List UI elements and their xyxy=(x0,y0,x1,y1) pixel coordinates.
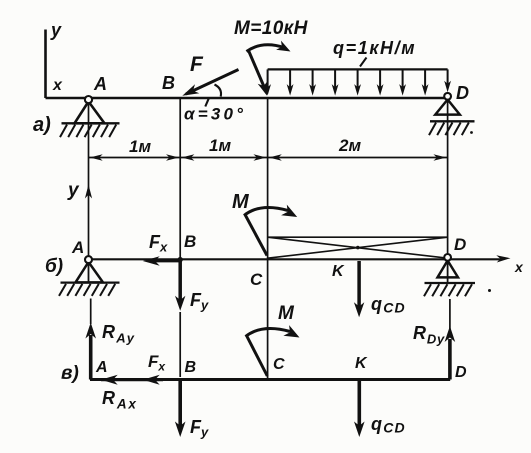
load band C-D with cross (b) xyxy=(268,236,448,238)
svg-text:D: D xyxy=(456,83,469,103)
svg-text:F: F xyxy=(190,53,204,76)
axis y (diagram b) with arrowhead xyxy=(88,164,90,259)
svg-text:в): в) xyxy=(61,363,79,384)
node B dot and label (b) xyxy=(178,257,183,262)
svg-text:1м: 1м xyxy=(209,136,231,155)
ground under A (a) xyxy=(62,122,120,124)
svg-text:A: A xyxy=(71,238,84,257)
ground under D (b) xyxy=(425,282,476,284)
force Fy at B (v) xyxy=(178,381,182,427)
svg-text:2м: 2м xyxy=(338,136,361,155)
wire: vertical construction line at B (a to b) xyxy=(179,98,181,259)
moment arc arrow at C (a) xyxy=(247,45,285,52)
moment arc arrow (v) xyxy=(246,328,291,336)
svg-text:y: y xyxy=(67,180,80,201)
axis y (diagram a) xyxy=(44,30,47,99)
force qCD at K (v) xyxy=(357,381,361,427)
reaction RDy at D (v) xyxy=(449,299,451,330)
svg-text:C: C xyxy=(250,270,263,289)
dimension line B-C: 1m xyxy=(180,157,267,159)
svg-text:1м: 1м xyxy=(129,137,151,156)
svg-text:K: K xyxy=(332,263,345,280)
angle alpha arc at B (a) xyxy=(215,85,222,97)
svg-text:C: C xyxy=(273,356,285,373)
moment stem down to C with arrowhead (a) xyxy=(248,50,265,89)
support A pin triangle (a) xyxy=(75,102,105,124)
beam b (axis x) xyxy=(89,258,504,260)
svg-text:B: B xyxy=(184,232,196,251)
svg-text:a): a) xyxy=(33,114,51,136)
moment stem to C (b) xyxy=(245,215,267,256)
svg-text:B: B xyxy=(162,73,175,93)
svg-text:D: D xyxy=(454,235,466,254)
support D roller (a) xyxy=(435,100,460,115)
distributed load arrows (a) xyxy=(267,69,269,89)
force Fx at B (b) xyxy=(152,260,180,263)
svg-text:y: y xyxy=(50,20,62,40)
reaction RAx along beam at A (v) xyxy=(101,378,163,381)
svg-text:D: D xyxy=(455,364,467,381)
svg-text:M=10кН: M=10кН xyxy=(234,18,309,39)
svg-text:x: x xyxy=(52,77,63,94)
beam v (A to D), bold xyxy=(90,378,450,381)
support D roller (b) xyxy=(438,261,459,278)
svg-text:B: B xyxy=(185,359,197,376)
dimension line C-D: 2m xyxy=(268,157,448,159)
svg-text:M: M xyxy=(232,191,250,213)
ground under D (a) xyxy=(430,120,475,122)
reaction RAy at A (v) xyxy=(90,299,92,325)
svg-text:б): б) xyxy=(45,256,63,277)
leader tick under q label xyxy=(360,58,367,67)
ground under A (b) xyxy=(61,281,120,283)
dimension line A-B: 1m xyxy=(89,157,181,159)
force qCD at K (b) xyxy=(357,261,361,308)
moment arc arrow (b) xyxy=(244,207,288,215)
wire: vertical construction line at C (a to v) xyxy=(267,98,269,378)
support A pin (b) xyxy=(76,262,104,282)
distributed load q top line (a) xyxy=(268,68,448,70)
moment stem to C (v) xyxy=(247,336,268,377)
beam a (A to D) xyxy=(46,97,448,99)
force F at B (a) xyxy=(186,70,239,95)
svg-text:A: A xyxy=(95,359,108,376)
svg-text:α=30°: α=30° xyxy=(184,105,246,124)
force Fx at B (v) xyxy=(143,375,160,385)
svg-text:x: x xyxy=(514,259,524,275)
support A pin (a): vertical through support xyxy=(88,102,90,164)
svg-text:K: K xyxy=(355,355,368,372)
force Fy at B (b) xyxy=(178,261,182,300)
svg-text:M: M xyxy=(278,303,295,324)
wire: vertical construction line at D (a to b) xyxy=(447,100,449,255)
svg-text:A: A xyxy=(93,74,107,94)
wire: vertical construction line at B (b to v) xyxy=(179,312,181,377)
svg-text:q=1кН/м: q=1кН/м xyxy=(333,38,416,58)
